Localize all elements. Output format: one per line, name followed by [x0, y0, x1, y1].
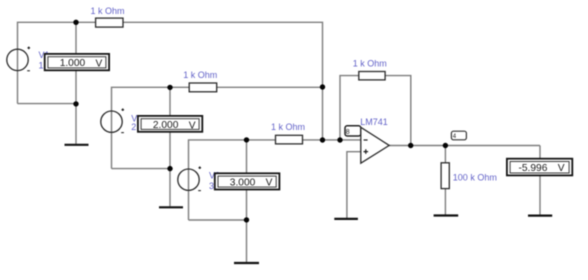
resistor R4 1 k Ohm feedback: [353, 59, 387, 80]
svg-text:1 k Ohm: 1 k Ohm: [183, 70, 217, 80]
wire: [18, 22, 323, 140]
resistor R3 1 k Ohm: [271, 122, 305, 144]
junction: [443, 143, 448, 148]
wire: [189, 219, 247, 221]
label V2: [131, 114, 145, 133]
svg-text:8: 8: [346, 129, 350, 136]
svg-text:100 k Ohm: 100 k Ohm: [453, 173, 497, 183]
junction: [73, 20, 78, 25]
ground: [528, 215, 552, 217]
wire: [389, 145, 540, 147]
svg-text:LM741: LM741: [360, 117, 388, 127]
ground: [434, 214, 459, 216]
ground: [234, 262, 259, 264]
wire: [444, 146, 446, 215]
ground: [159, 206, 183, 208]
svg-text:-5.996: -5.996: [519, 163, 548, 174]
junction: [167, 166, 172, 171]
op-amp U1 LM741: [345, 117, 389, 163]
junction: [167, 85, 172, 90]
svg-text:2.000: 2.000: [153, 120, 179, 131]
voltmeter M3: [215, 173, 280, 189]
resistor R1 1 k Ohm: [90, 6, 124, 27]
svg-text:1.000: 1.000: [60, 58, 86, 69]
svg-text:1 k Ohm: 1 k Ohm: [353, 59, 387, 69]
source V2: [101, 108, 124, 132]
junction: [320, 84, 325, 89]
svg-text:V: V: [266, 178, 273, 189]
junction: [408, 143, 413, 148]
ground: [334, 218, 358, 220]
source V3: [178, 166, 201, 190]
voltmeter M1: [45, 54, 109, 70]
voltmeter M2: [138, 116, 202, 132]
wire: [189, 140, 361, 220]
junction: [320, 137, 325, 142]
wire: [347, 152, 361, 218]
junction: [73, 101, 78, 106]
svg-text:V: V: [189, 120, 196, 131]
svg-text:V: V: [558, 163, 565, 174]
svg-text:1 k Ohm: 1 k Ohm: [271, 122, 305, 132]
wire: [169, 87, 171, 206]
voltmeter M4 output: [507, 159, 572, 176]
resistor R5 100 k Ohm: [441, 163, 497, 189]
svg-text:V: V: [96, 58, 103, 69]
wire: [75, 22, 77, 144]
junction: [244, 137, 249, 142]
label V3: [209, 171, 223, 191]
svg-text:3.000: 3.000: [230, 178, 256, 189]
junction: [244, 217, 249, 222]
source V1: [7, 47, 30, 71]
label V1: [39, 50, 53, 70]
wire: [112, 87, 323, 168]
wire: [539, 146, 541, 215]
resistor R2 1 k Ohm: [183, 70, 217, 92]
wire: [340, 76, 411, 146]
ground: [65, 144, 89, 146]
wire: [18, 103, 77, 105]
svg-text:1 k Ohm: 1 k Ohm: [90, 6, 124, 16]
wire: [246, 140, 248, 262]
junction: [337, 137, 342, 142]
node 4 connector: [451, 131, 466, 140]
wire: [112, 168, 171, 170]
